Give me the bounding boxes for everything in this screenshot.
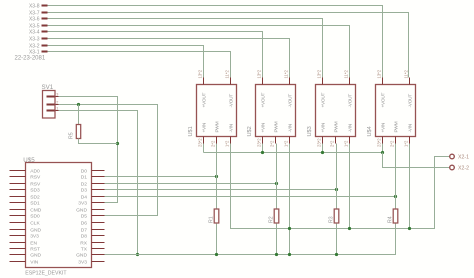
wire SV1 pin 2 to ESP D5 <box>59 105 158 216</box>
ESP pin stub left 3V3 <box>10 235 26 237</box>
wire +VIN rail U$1..U$4 <box>203 144 205 153</box>
ESP pin stub right GND <box>92 254 105 256</box>
ESP pin stub left SD3 <box>10 189 26 191</box>
wire R2 bottom to GND rail <box>276 224 278 255</box>
svg-text:1*2: 1*2 <box>225 140 230 147</box>
wire +VIN pin drop x=262.5 <box>262 144 264 153</box>
wire SV1 pin 1 to GND rail <box>59 111 138 255</box>
ESP pin stub left EN <box>10 242 26 244</box>
wire ESP D2 to U$2 PWM <box>105 183 277 185</box>
svg-text:2*2: 2*2 <box>390 140 395 147</box>
svg-text:23*2: 23*2 <box>377 138 382 147</box>
svg-text:SD0: SD0 <box>30 213 40 219</box>
ESP pin stub right D7 <box>92 229 105 231</box>
junction dot -VIN rail U$3 <box>348 227 351 230</box>
ESP pin stub right D3 <box>92 189 105 191</box>
svg-text:13*2: 13*2 <box>257 69 262 78</box>
svg-text:X3-4: X3-4 <box>29 29 40 35</box>
junction dot -VIN rail U$4 <box>408 227 411 230</box>
wire R4 PWM chain <box>395 144 397 210</box>
svg-text:1*2: 1*2 <box>284 140 289 147</box>
wire R5 bottom lead to 3V3 node <box>79 139 118 144</box>
U$1 pin PWM (22) <box>216 137 218 144</box>
op-amp/converter module U$3 <box>316 85 356 137</box>
wire -VIN rail (GND) to X2-1 <box>231 144 450 229</box>
wire R3 bottom to GND rail <box>336 224 338 255</box>
svg-text:23*2: 23*2 <box>317 138 322 147</box>
wire R5 top lead <box>78 105 80 125</box>
svg-text:11*2: 11*2 <box>344 70 349 79</box>
junction dot -VIN rail U$2 <box>288 227 291 230</box>
svg-text:-VIN: -VIN <box>228 123 234 132</box>
svg-text:22-23-2081: 22-23-2081 <box>15 56 46 62</box>
ESP pin stub left SD1 <box>10 202 26 204</box>
resistor R2 <box>274 209 279 223</box>
ESP pin stub right D5 <box>92 215 105 217</box>
U$3 pin -VOUT (11*2) <box>349 78 351 85</box>
junction dot R2 GND <box>275 253 278 256</box>
svg-text:+VIN: +VIN <box>380 122 386 132</box>
svg-text:X2-2: X2-2 <box>458 166 469 172</box>
ESP pin stub right 3V3 <box>92 202 105 204</box>
svg-text:-VOUT: -VOUT <box>287 94 293 108</box>
junction dot +VIN rail x=382.5 <box>381 151 384 154</box>
svg-text:EN: EN <box>30 240 37 246</box>
svg-text:RSV: RSV <box>30 174 41 180</box>
svg-text:2*2: 2*2 <box>330 140 335 147</box>
svg-text:X3-8: X3-8 <box>29 3 40 9</box>
resistor R3 <box>334 209 339 223</box>
svg-text:PWM: PWM <box>214 121 220 132</box>
svg-text:2: 2 <box>56 100 58 104</box>
terminal X2-1 <box>450 154 455 159</box>
svg-text:11*2: 11*2 <box>284 70 289 79</box>
junction dot D4/PWM <box>394 195 397 198</box>
U$4 pin -VIN (1*2) <box>409 137 411 144</box>
U$1 pin +VIN (23*2) <box>203 137 205 144</box>
terminal X2-2 <box>450 165 455 170</box>
svg-text:SD2: SD2 <box>30 194 40 200</box>
svg-text:U$3: U$3 <box>307 126 313 136</box>
svg-text:R2: R2 <box>269 216 275 223</box>
svg-text:X3-3: X3-3 <box>29 36 40 42</box>
wire R1 bottom to GND rail <box>216 224 218 255</box>
ESP pin stub right RX <box>92 242 105 244</box>
wire R2 PWM chain <box>276 144 278 210</box>
ESP pin stub left SD2 <box>10 196 26 198</box>
wire ESP D1 to U$1 PWM <box>105 176 217 178</box>
ESP pin stub left VIN <box>10 261 26 263</box>
ESP pin stub left RSV <box>10 183 26 185</box>
svg-text:-VOUT: -VOUT <box>347 94 353 108</box>
resistor R4 <box>393 209 398 223</box>
U$3 pin PWM (22) <box>335 137 337 144</box>
svg-text:11*2: 11*2 <box>404 70 409 79</box>
U$2 pin -VOUT (11*2) <box>289 78 291 85</box>
ESP pin stub right D6 <box>92 222 105 224</box>
svg-text:AD0: AD0 <box>30 168 40 174</box>
wire X3-6 to converter VOUT <box>48 19 323 78</box>
ESP pin stub right GND <box>92 209 105 211</box>
svg-text:13*2: 13*2 <box>198 69 203 78</box>
wire SV1 pin 3 to ESP 3V3 (net 3V3) <box>59 97 118 144</box>
op-amp/converter module U$4 <box>376 85 416 137</box>
ESP pin stub left AD0 <box>10 170 26 172</box>
ESP pin stub right D4 <box>92 196 105 198</box>
svg-text:GND: GND <box>76 252 87 258</box>
resistor R5 <box>76 125 80 139</box>
svg-text:X2-1: X2-1 <box>458 155 469 161</box>
SV1 pin stub 1 <box>56 110 59 112</box>
svg-text:PWM: PWM <box>333 121 339 132</box>
junction dot R1 GND <box>215 253 218 256</box>
op-amp/converter module U$2 <box>256 85 296 137</box>
junction dot +VIN rail x=262.5 <box>261 151 264 154</box>
svg-text:-VOUT: -VOUT <box>228 94 234 108</box>
SV1 pin stub 3 <box>56 96 59 98</box>
svg-text:RST: RST <box>30 246 40 252</box>
SV1 pin stub 2 <box>56 104 59 106</box>
svg-text:X3-1: X3-1 <box>29 49 40 55</box>
SV1 pad bar pin 3 <box>47 96 55 98</box>
svg-text:+VIN: +VIN <box>201 122 207 132</box>
ESP pin stub left CMD <box>10 209 26 211</box>
ESP pin stub right D1 <box>92 176 105 178</box>
svg-text:D8: D8 <box>81 233 88 239</box>
ESP pin stub right D8 <box>92 235 105 237</box>
resistor R1 <box>214 209 219 223</box>
svg-text:GND: GND <box>30 227 41 233</box>
wire U$2 -VIN drop <box>289 144 291 255</box>
svg-text:R3: R3 <box>329 216 335 223</box>
svg-text:D7: D7 <box>81 227 88 233</box>
svg-text:+VOUT: +VOUT <box>201 93 207 108</box>
wire X3-2 to converter VOUT <box>48 46 204 78</box>
wire R1 PWM chain <box>216 144 218 210</box>
U$4 pin +VOUT (13*2) <box>382 78 384 85</box>
U$4 pin -VOUT (11*2) <box>409 78 411 85</box>
wire U$4 -VIN drop <box>409 144 411 229</box>
svg-text:13*2: 13*2 <box>377 69 382 78</box>
wire ESP D3 to U$3 PWM <box>105 189 337 191</box>
U$1 pin -VOUT (11*2) <box>230 78 232 85</box>
svg-text:+VOUT: +VOUT <box>380 93 386 108</box>
svg-text:D6: D6 <box>81 220 88 226</box>
svg-text:PWM: PWM <box>273 121 279 132</box>
wire X3-8 to converter VOUT <box>48 6 383 78</box>
wire R3 PWM chain <box>336 144 338 210</box>
junction dot D2/PWM <box>275 182 278 185</box>
SV1 pad bar pin 2 <box>47 104 55 106</box>
op-amp/converter module U$1 <box>197 85 237 137</box>
wire +VIN pin drop x=322.5 <box>322 144 324 153</box>
ESP pin stub left GND <box>10 254 26 256</box>
ESP pin stub left RSV <box>10 176 26 178</box>
svg-text:D1: D1 <box>81 174 88 180</box>
svg-text:3V3: 3V3 <box>30 233 39 239</box>
svg-text:+VOUT: +VOUT <box>260 93 266 108</box>
svg-text:1*2: 1*2 <box>404 140 409 147</box>
wire X3-7 to converter VOUT <box>48 13 409 78</box>
U$4 pin PWM (22) <box>395 137 397 144</box>
wire X3-4 to converter VOUT <box>48 32 263 78</box>
svg-text:11*2: 11*2 <box>225 70 230 79</box>
junction dot U$2 -VIN on GND rail <box>288 253 291 256</box>
svg-text:+VIN: +VIN <box>320 122 326 132</box>
junction dot SV1-2 / R5 top <box>77 103 80 106</box>
svg-text:D0: D0 <box>81 168 88 174</box>
svg-text:D5: D5 <box>81 213 88 219</box>
svg-text:ESP12E_DEVKIT: ESP12E_DEVKIT <box>25 271 67 277</box>
svg-text:SD1: SD1 <box>30 200 40 206</box>
junction dot +VIN rail x=322.5 <box>321 151 324 154</box>
svg-text:R4: R4 <box>388 216 394 223</box>
svg-text:RSV: RSV <box>30 181 41 187</box>
svg-text:VIN: VIN <box>30 259 39 265</box>
ESP pin stub right D2 <box>92 183 105 185</box>
svg-text:1*2: 1*2 <box>344 140 349 147</box>
svg-text:D2: D2 <box>81 181 88 187</box>
svg-text:3V3: 3V3 <box>78 200 87 206</box>
junction dot SV1-1 on GND rail <box>136 253 139 256</box>
wire X3-1 to converter VOUT <box>48 52 231 78</box>
svg-text:GND: GND <box>76 207 87 213</box>
U$3 pin -VIN (1*2) <box>349 137 351 144</box>
svg-text:3: 3 <box>56 92 58 96</box>
svg-text:CMD: CMD <box>30 207 42 213</box>
svg-text:CLK: CLK <box>30 220 40 226</box>
wire X3-5 to converter VOUT <box>48 26 350 78</box>
svg-text:+VOUT: +VOUT <box>320 93 326 108</box>
svg-text:U$4: U$4 <box>367 126 373 136</box>
U$4 pin +VIN (23*2) <box>382 137 384 144</box>
wire X3-3 to converter VOUT <box>48 39 290 78</box>
ESP pin stub left SD0 <box>10 215 26 217</box>
svg-text:RX: RX <box>80 240 88 246</box>
svg-text:-VOUT: -VOUT <box>407 94 413 108</box>
ESP pin stub right D0 <box>92 170 105 172</box>
svg-text:1: 1 <box>56 106 58 110</box>
wire U$3 -VIN drop <box>349 144 351 229</box>
svg-text:-VIN: -VIN <box>347 123 353 132</box>
ESP pin stub right 3V3 <box>92 261 105 263</box>
U$3 pin +VOUT (13*2) <box>322 78 324 85</box>
svg-text:D4: D4 <box>81 194 88 200</box>
junction dot R3 GND <box>335 253 338 256</box>
svg-text:SD3: SD3 <box>30 187 40 193</box>
svg-text:23*2: 23*2 <box>257 138 262 147</box>
junction dot D1/PWM <box>215 175 218 178</box>
svg-text:GND: GND <box>30 252 41 258</box>
wire GND rail from ESP GND pin <box>105 224 396 255</box>
ESP pin stub left RST <box>10 248 26 250</box>
junction dot 3V3/R5 node <box>116 142 119 145</box>
U$2 pin -VIN (1*2) <box>289 137 291 144</box>
svg-text:2*2: 2*2 <box>270 140 275 147</box>
svg-text:23*2: 23*2 <box>198 138 203 147</box>
ESP pin stub left CLK <box>10 222 26 224</box>
ESP pin stub left GND <box>10 229 26 231</box>
U$2 pin +VIN (23*2) <box>262 137 264 144</box>
svg-text:PWM: PWM <box>393 121 399 132</box>
U$1 pin -VIN (1*2) <box>230 137 232 144</box>
svg-text:13*2: 13*2 <box>317 69 322 78</box>
svg-text:2*2: 2*2 <box>211 140 216 147</box>
svg-text:X3-6: X3-6 <box>29 16 40 22</box>
ESP pin stub right TX <box>92 248 105 250</box>
svg-text:R1: R1 <box>209 216 215 223</box>
wire +VIN pin drop x=382.5 <box>382 144 384 153</box>
U$2 pin +VOUT (13*2) <box>262 78 264 85</box>
U$1 pin +VOUT (13*2) <box>203 78 205 85</box>
U$2 pin PWM (22) <box>275 137 277 144</box>
U$3 pin +VIN (23*2) <box>322 137 324 144</box>
svg-text:-VIN: -VIN <box>407 123 413 132</box>
wire +VIN rail to X2-2 <box>383 153 450 168</box>
svg-text:R5: R5 <box>69 132 75 139</box>
junction dot D3/PWM <box>335 188 338 191</box>
svg-text:U$2: U$2 <box>247 126 253 136</box>
svg-text:U$1: U$1 <box>188 126 194 136</box>
svg-text:-VIN: -VIN <box>287 123 293 132</box>
wire ESP D4 to U$4 PWM <box>105 196 396 198</box>
svg-text:TX: TX <box>81 246 88 252</box>
SV1 pad bar pin 1 <box>47 110 55 112</box>
svg-text:+VIN: +VIN <box>260 122 266 132</box>
svg-text:3V3: 3V3 <box>78 259 87 265</box>
svg-text:D3: D3 <box>81 187 88 193</box>
